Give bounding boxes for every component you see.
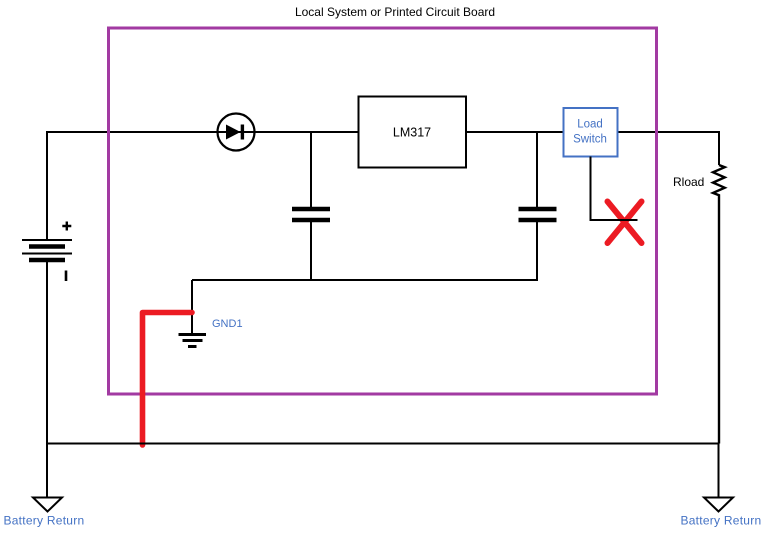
svg-text:Battery Return: Battery Return — [681, 514, 762, 528]
svg-text:GND1: GND1 — [212, 318, 243, 330]
svg-text:Load: Load — [577, 119, 603, 131]
svg-text:Switch: Switch — [573, 134, 607, 146]
svg-text:Battery Return: Battery Return — [4, 514, 85, 528]
svg-text:Local System or Printed Circui: Local System or Printed Circuit Board — [295, 5, 495, 19]
svg-text:Rload: Rload — [673, 175, 704, 189]
svg-text:LM317: LM317 — [393, 126, 431, 140]
